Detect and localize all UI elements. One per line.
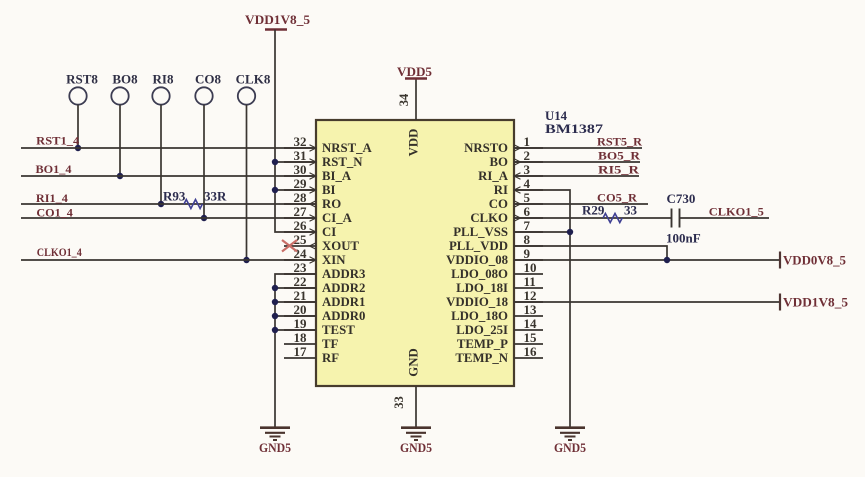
pin 8 PLL_VDD (right stub) (449, 232, 543, 253)
svg-text:20: 20 (294, 302, 307, 317)
wire pin6 CLKO to C730 (514, 217, 672, 219)
resistor R29 33 (582, 203, 638, 223)
svg-text:PLL_VDD: PLL_VDD (449, 239, 508, 253)
wire BO8 down (119, 105, 121, 176)
svg-text:RST_N: RST_N (322, 155, 363, 169)
svg-text:BM1387: BM1387 (545, 121, 604, 136)
pin 17 RF (left stub) (284, 344, 339, 365)
svg-text:RST1_4: RST1_4 (36, 134, 79, 148)
testpoint CO8 (195, 72, 222, 105)
pin 16 TEMP_N (right stub) (455, 344, 543, 365)
testpoint RST8 (66, 72, 98, 105)
pin 23 ADDR3 (left stub) (284, 260, 365, 281)
pin 18 TF (left stub) (284, 330, 339, 351)
svg-text:13: 13 (524, 302, 538, 317)
svg-text:CLK8: CLK8 (236, 72, 271, 87)
svg-text:CLKO1_4: CLKO1_4 (37, 245, 82, 259)
wire stem to pin 29 (275, 189, 316, 191)
wire net CLKO1_4 (21, 259, 316, 261)
svg-text:28: 28 (294, 190, 308, 205)
svg-text:31: 31 (294, 148, 307, 163)
svg-text:C730: C730 (667, 191, 696, 206)
wire pin8 PLL_VDD to pin9 net (514, 246, 667, 260)
wire net RI5_R (514, 175, 639, 177)
designator U14 (545, 108, 567, 123)
svg-text:GND: GND (407, 348, 421, 376)
svg-text:VDDIO_08: VDDIO_08 (446, 253, 508, 267)
svg-text:GND5: GND5 (554, 441, 586, 455)
wire C730 to CLKO1_5 (680, 217, 770, 219)
svg-text:BO5_R: BO5_R (598, 149, 640, 163)
pin 31 RST_N (left stub) (284, 148, 363, 169)
wire bus to pin row 12 (275, 315, 316, 317)
svg-text:3: 3 (524, 162, 531, 177)
svg-text:22: 22 (294, 274, 307, 289)
net label RI1_4 (36, 191, 68, 205)
power port VDD0V8_5 (780, 252, 846, 269)
svg-text:XIN: XIN (322, 253, 346, 267)
pin 25 XOUT (left stub) (284, 232, 359, 253)
svg-text:NRST_A: NRST_A (322, 141, 373, 155)
svg-text:21: 21 (294, 288, 307, 303)
net label RST5_R (597, 135, 642, 149)
pin 34 VDD (top stub) (397, 79, 421, 157)
svg-text:CLKO1_5: CLKO1_5 (709, 205, 764, 219)
wire pin9 VDDIO_08 to VDD0V8_5 (514, 259, 780, 261)
svg-text:10: 10 (524, 260, 537, 275)
svg-text:24: 24 (294, 246, 308, 261)
svg-text:BI: BI (322, 183, 336, 197)
svg-text:2: 2 (524, 148, 531, 163)
junction pin8/pin9 (664, 257, 670, 263)
ground GND5 at x=570 (554, 428, 586, 455)
pin 1 NRSTO (right stub) (464, 134, 543, 155)
pin 4 RI (right stub) (494, 176, 543, 197)
svg-text:LDO_25I: LDO_25I (456, 323, 508, 337)
wire VDD1V8_5 stem to pin 26 (275, 30, 316, 233)
svg-text:30: 30 (294, 162, 307, 177)
junction bus row 13 (272, 327, 278, 333)
svg-text:26: 26 (294, 218, 308, 233)
svg-text:LDO_18I: LDO_18I (456, 281, 508, 295)
svg-text:5: 5 (524, 190, 531, 205)
wire pin12 VDDIO_18 to VDD1V8_5 (514, 301, 780, 303)
pin 12 VDDIO_18 (right stub) (446, 288, 543, 309)
svg-text:RST8: RST8 (66, 72, 98, 87)
pin 7 PLL_VSS (right stub) (453, 218, 543, 239)
svg-text:LDO_08O: LDO_08O (451, 267, 508, 281)
wire pin7 PLL_VSS to GND bus (514, 231, 570, 233)
svg-text:RST5_R: RST5_R (597, 135, 642, 149)
svg-text:19: 19 (294, 316, 308, 331)
pin 11 LDO_18I (right stub) (456, 274, 543, 295)
svg-text:4: 4 (524, 176, 531, 191)
wire bus to pin row 11 (275, 301, 316, 303)
pin 33 GND (bottom stub) (392, 348, 421, 427)
svg-text:LDO_18O: LDO_18O (451, 309, 508, 323)
svg-text:33R: 33R (204, 189, 227, 204)
resistor R93 33R (163, 189, 227, 209)
pin 3 RI_A (right stub) (478, 162, 543, 183)
svg-text:R93: R93 (163, 189, 186, 204)
testpoint RI8 (152, 72, 174, 105)
svg-text:R29: R29 (582, 203, 605, 218)
junction stem/pin29 (272, 187, 278, 193)
ground GND5 at x=416 (400, 428, 432, 455)
svg-text:17: 17 (294, 344, 308, 359)
no-connect X on XOUT pin 25 (282, 240, 297, 252)
svg-text:11: 11 (524, 274, 536, 289)
net label RI5_R (598, 163, 639, 177)
svg-text:15: 15 (524, 330, 538, 345)
net label CLKO1_4 (37, 245, 82, 259)
svg-text:GND5: GND5 (259, 441, 291, 455)
svg-text:25: 25 (294, 232, 308, 247)
power port VDD1V8_5 (right) (780, 294, 849, 311)
svg-text:CO1_4: CO1_4 (36, 205, 73, 219)
pin 9 VDDIO_08 (right stub) (446, 246, 543, 267)
pin 29 BI (left stub) (284, 176, 336, 197)
svg-text:12: 12 (524, 288, 537, 303)
svg-text:CO8: CO8 (195, 72, 222, 87)
svg-text:RI1_4: RI1_4 (36, 191, 68, 205)
pin 26 CI (left stub) (284, 218, 336, 239)
svg-text:ADDR3: ADDR3 (322, 267, 365, 281)
svg-text:23: 23 (294, 260, 308, 275)
wire ADDR ground bus (275, 274, 316, 428)
junction pin7/GND bus (567, 229, 573, 235)
pin 28 RO (left stub) (284, 190, 341, 211)
svg-text:TF: TF (322, 337, 339, 351)
svg-text:ADDR2: ADDR2 (322, 281, 365, 295)
svg-text:VDD0V8_5: VDD0V8_5 (783, 252, 846, 267)
svg-text:33: 33 (392, 396, 406, 409)
svg-text:TEMP_P: TEMP_P (457, 337, 508, 351)
junction bus row 12 (272, 313, 278, 319)
power port VDD5 (397, 64, 432, 79)
junction CLK8 (243, 257, 249, 263)
svg-text:PLL_VSS: PLL_VSS (453, 225, 508, 239)
wire net BO1_4 (21, 175, 316, 177)
wire net CO5_R (514, 203, 648, 205)
junction bus row 11 (272, 299, 278, 305)
svg-text:9: 9 (524, 246, 531, 261)
IC U14 BM1387 body (316, 120, 514, 386)
svg-text:100nF: 100nF (666, 231, 701, 246)
net label CLKO1_5 (709, 205, 764, 219)
pin 30 BI_A (left stub) (284, 162, 352, 183)
svg-text:BO: BO (490, 155, 509, 169)
svg-text:CI: CI (322, 225, 336, 239)
svg-text:14: 14 (524, 316, 538, 331)
junction RI8 (158, 201, 164, 207)
svg-text:29: 29 (294, 176, 308, 191)
pin 19 TEST (left stub) (284, 316, 355, 337)
junction bus row 10 (272, 285, 278, 291)
pin 27 CI_A (left stub) (284, 204, 353, 225)
pin 13 LDO_18O (right stub) (451, 302, 543, 323)
svg-text:VDD1V8_5: VDD1V8_5 (783, 294, 849, 309)
wire pin4 RI to GND bus (514, 190, 570, 428)
svg-text:GND5: GND5 (400, 441, 432, 455)
power port VDD1V8_5 (top left) (245, 12, 311, 30)
junction RST8 (75, 145, 81, 151)
junction BO8 (117, 173, 123, 179)
svg-text:NRSTO: NRSTO (464, 141, 508, 155)
svg-text:VDDIO_18: VDDIO_18 (446, 295, 508, 309)
svg-text:32: 32 (294, 134, 307, 149)
pin 32 NRST_A (left stub) (284, 134, 373, 155)
svg-text:8: 8 (524, 232, 531, 247)
wire net RI1_4 (21, 203, 316, 205)
wire net BO5_R (514, 161, 640, 163)
junction stem/pin31 (272, 159, 278, 165)
part number BM1387 (545, 121, 604, 136)
svg-text:CO: CO (489, 197, 508, 211)
svg-text:CLKO: CLKO (470, 211, 508, 225)
svg-text:27: 27 (294, 204, 308, 219)
net label CO5_R (597, 191, 637, 205)
svg-text:1: 1 (524, 134, 531, 149)
junction CO8 (201, 215, 207, 221)
pin 21 ADDR1 (left stub) (284, 288, 365, 309)
wire CLK8 down (246, 105, 248, 260)
svg-text:VDD: VDD (407, 129, 421, 157)
svg-text:BO1_4: BO1_4 (36, 162, 72, 176)
svg-text:ADDR0: ADDR0 (322, 309, 365, 323)
svg-text:VDD1V8_5: VDD1V8_5 (245, 12, 311, 27)
wire stem to pin 31 (275, 161, 316, 163)
wire net RST5_R (514, 147, 642, 149)
pin 15 TEMP_P (right stub) (457, 330, 543, 351)
pin 2 BO (right stub) (490, 148, 544, 169)
svg-text:34: 34 (397, 93, 411, 106)
svg-text:ADDR1: ADDR1 (322, 295, 365, 309)
svg-text:RO: RO (322, 197, 341, 211)
wire RI8 down (160, 105, 162, 204)
testpoint CLK8 (236, 72, 271, 105)
net label CO1_4 (36, 205, 73, 219)
capacitor C730 100nF (666, 191, 701, 246)
pin 24 XIN (left stub) (284, 246, 346, 267)
svg-text:RI: RI (494, 183, 508, 197)
pin 6 CLKO (right stub) (470, 204, 543, 225)
wire net RST1_4 (21, 147, 316, 149)
svg-text:CI_A: CI_A (322, 211, 353, 225)
svg-text:TEST: TEST (322, 323, 355, 337)
ground GND5 at x=275 (259, 428, 291, 455)
svg-text:BI_A: BI_A (322, 169, 352, 183)
wire bus to pin row 10 (275, 287, 316, 289)
svg-text:RI_A: RI_A (478, 169, 509, 183)
wire RST8 down (77, 105, 79, 148)
svg-text:XOUT: XOUT (322, 239, 359, 253)
svg-text:TEMP_N: TEMP_N (455, 351, 508, 365)
svg-text:RI8: RI8 (153, 72, 174, 87)
pin 5 CO (right stub) (489, 190, 543, 211)
svg-text:16: 16 (524, 344, 538, 359)
testpoint BO8 (111, 72, 138, 105)
pin 20 ADDR0 (left stub) (284, 302, 365, 323)
wire CO8 down (203, 105, 205, 218)
pin 22 ADDR2 (left stub) (284, 274, 365, 295)
svg-text:BO8: BO8 (112, 72, 138, 87)
wire net CO1_4 (21, 217, 316, 219)
wire bus to pin row 13 (275, 329, 316, 331)
net label RST1_4 (36, 134, 79, 148)
svg-text:RI5_R: RI5_R (598, 163, 639, 177)
pin 14 LDO_25I (right stub) (456, 316, 543, 337)
net label BO1_4 (36, 162, 72, 176)
svg-text:6: 6 (524, 204, 531, 219)
svg-text:7: 7 (524, 218, 531, 233)
pin 10 LDO_08O (right stub) (451, 260, 543, 281)
svg-text:VDD5: VDD5 (397, 64, 432, 79)
svg-text:33: 33 (624, 203, 638, 218)
svg-text:18: 18 (294, 330, 308, 345)
net label BO5_R (598, 149, 640, 163)
svg-text:RF: RF (322, 351, 339, 365)
